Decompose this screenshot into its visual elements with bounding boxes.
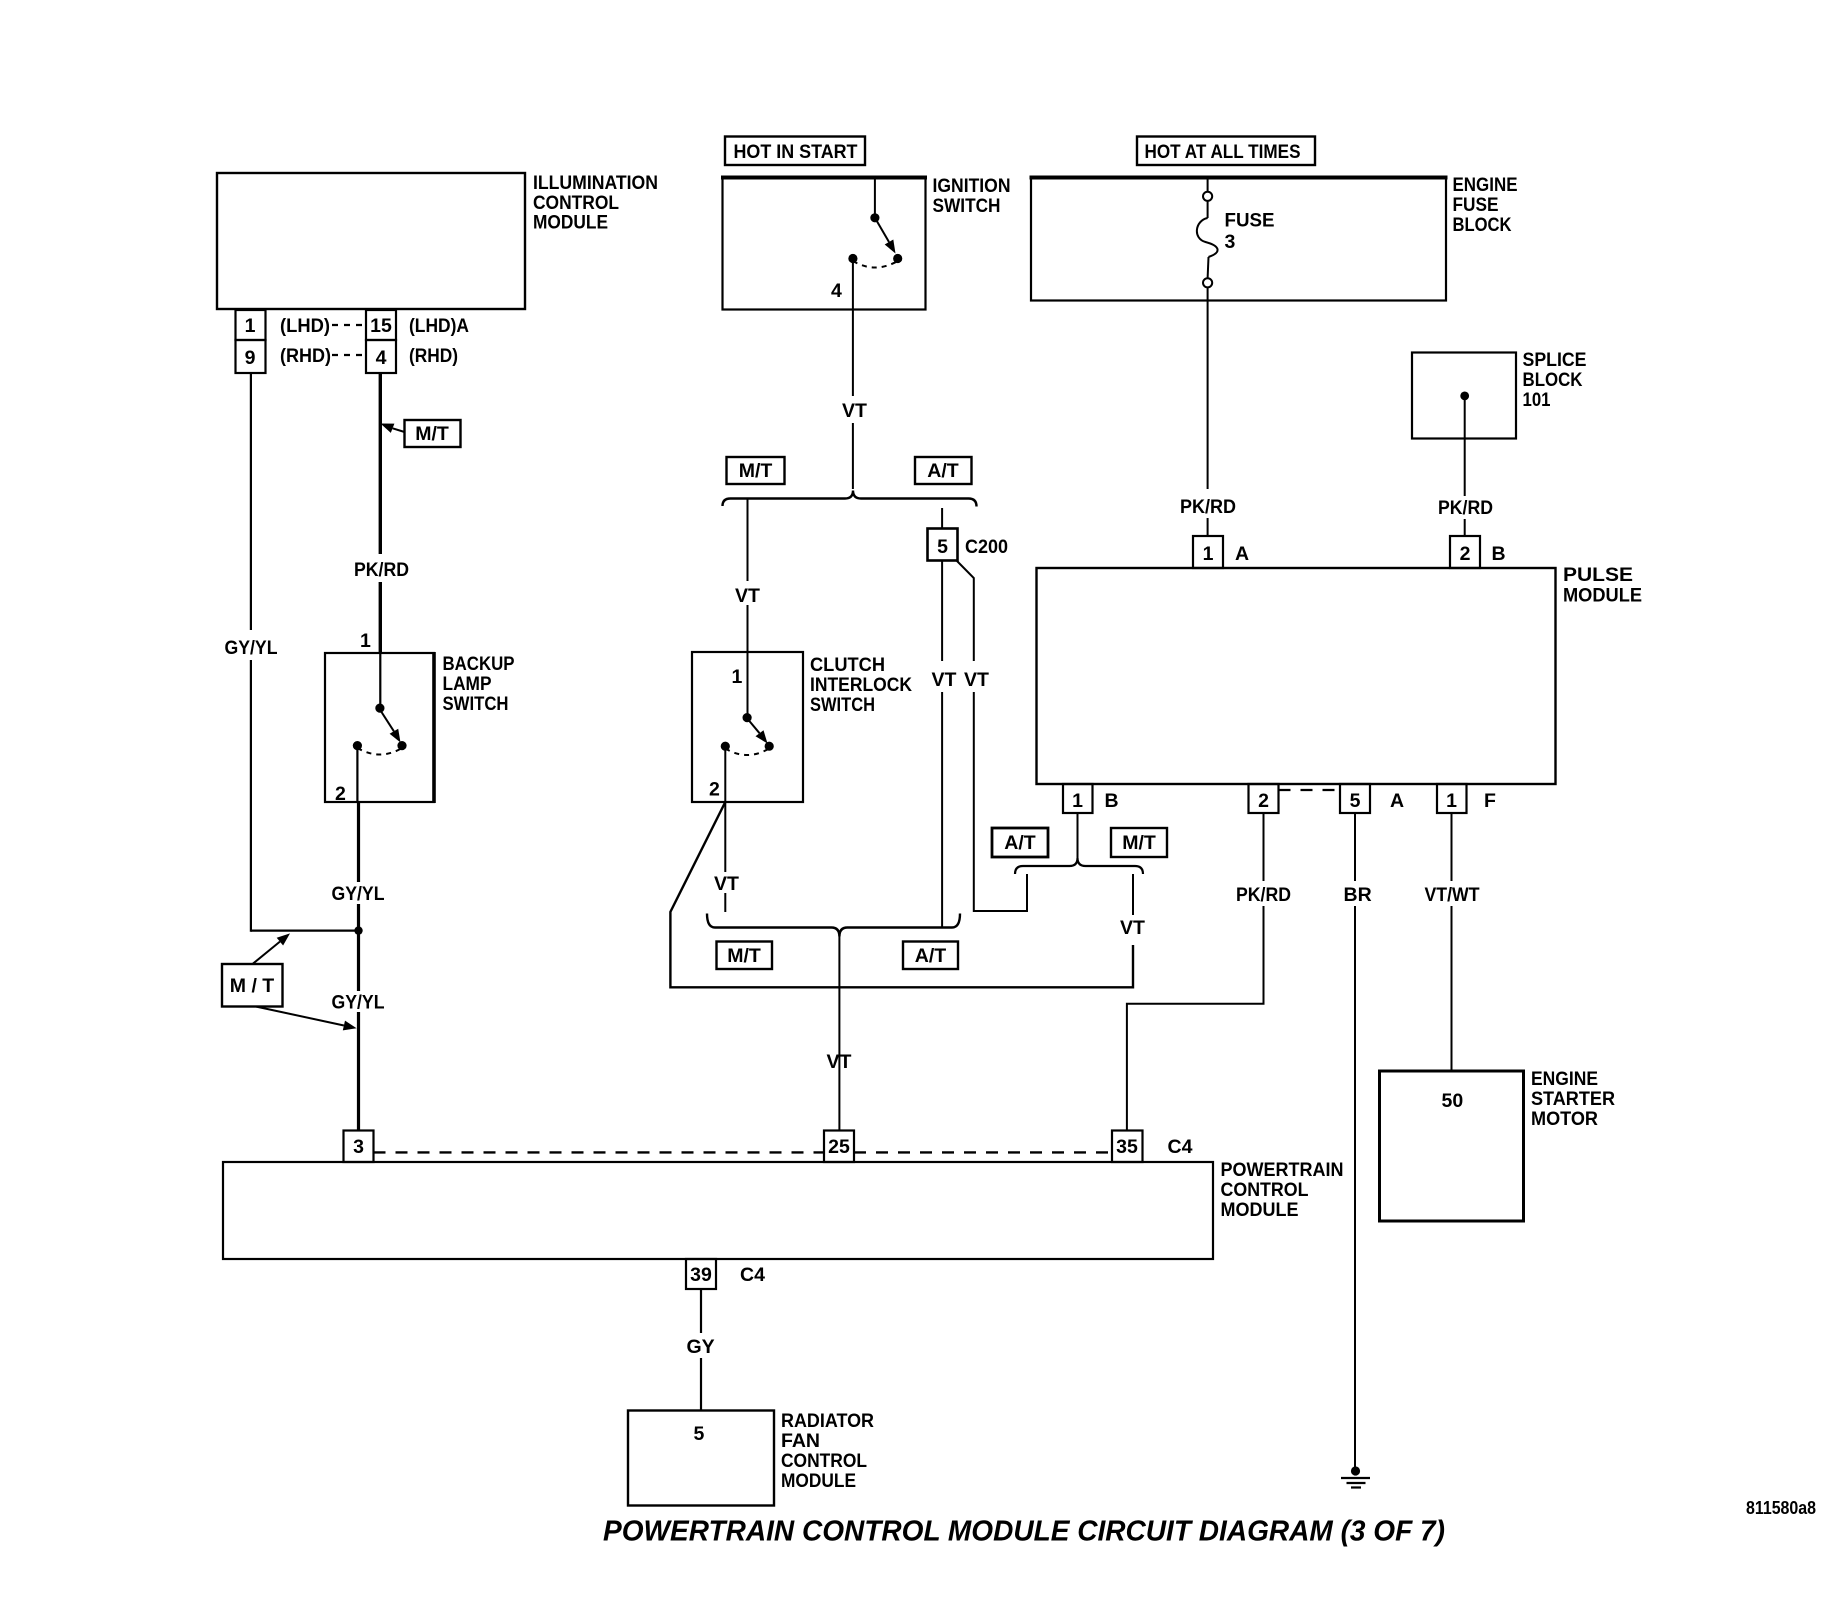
svg-text:5: 5: [1350, 790, 1361, 812]
svg-text:A/T: A/T: [915, 945, 947, 967]
wire from pin 1 B to brace: [1077, 813, 1079, 859]
svg-text:CONTROL: CONTROL: [781, 1450, 867, 1472]
svg-text:VT: VT: [964, 669, 989, 691]
svg-text:25: 25: [828, 1136, 850, 1158]
A/T label box (ignition split): [915, 457, 972, 484]
svg-text:3: 3: [353, 1136, 364, 1158]
svg-text:(LHD)A: (LHD)A: [409, 315, 469, 337]
svg-text:(LHD): (LHD): [280, 315, 330, 337]
M/T callout (pin 4 wire): [381, 420, 461, 447]
svg-text:(RHD): (RHD): [280, 345, 331, 367]
HOT AT ALL TIMES box: [1137, 137, 1315, 166]
dashed link pin3-pin25: [374, 1151, 825, 1153]
wire to C200 (A/T branch): [941, 508, 943, 529]
brace under pin 1B: [1015, 858, 1143, 874]
svg-text:A/T: A/T: [927, 460, 959, 482]
svg-text:VT: VT: [842, 400, 867, 422]
backup lamp switch contacts: [335, 653, 407, 805]
svg-text:5: 5: [694, 1423, 705, 1445]
M/T callout (junction): [222, 933, 357, 1030]
svg-text:M/T: M/T: [727, 945, 761, 967]
svg-text:1: 1: [732, 666, 743, 688]
svg-text:CONTROL: CONTROL: [1221, 1179, 1309, 1201]
wire VT from ignition pin 4: [842, 310, 867, 489]
svg-text:35: 35: [1116, 1136, 1138, 1158]
svg-text:1: 1: [360, 630, 371, 652]
svg-text:M / T: M / T: [230, 975, 274, 997]
wire GY/YL horizontal joint: [251, 929, 359, 931]
svg-text:PK/RD: PK/RD: [1438, 497, 1493, 519]
pin 15 (illumination): [366, 310, 469, 340]
svg-text:(RHD): (RHD): [409, 345, 458, 367]
svg-text:VT: VT: [932, 669, 957, 691]
brace under ignition split: [723, 491, 977, 507]
PCM pin 39: [686, 1259, 765, 1289]
svg-text:MODULE: MODULE: [533, 212, 608, 234]
svg-text:STARTER: STARTER: [1531, 1088, 1615, 1110]
svg-text:VT: VT: [735, 585, 760, 607]
engine fuse block box: [1030, 174, 1518, 301]
wire VT (C200 left leg): [932, 561, 957, 927]
svg-text:RADIATOR: RADIATOR: [781, 1410, 874, 1432]
wire GY from pin 39: [687, 1289, 715, 1410]
wire GY/YL from pin 9: [225, 373, 278, 932]
A/T label box (1B row): [992, 828, 1048, 857]
wire PK/RD from splice block: [1438, 396, 1493, 536]
svg-text:MOTOR: MOTOR: [1531, 1108, 1598, 1130]
M/T label box (merge row): [717, 942, 773, 970]
svg-text:1: 1: [1072, 790, 1083, 812]
clutch interlock switch contacts: [709, 652, 774, 802]
svg-text:B: B: [1492, 543, 1506, 565]
svg-text:ENGINE: ENGINE: [1453, 174, 1518, 196]
svg-text:2: 2: [1460, 543, 1471, 565]
svg-text:POWERTRAIN CONTROL MODULE CIRC: POWERTRAIN CONTROL MODULE CIRCUIT DIAGRA…: [603, 1516, 1445, 1548]
PCM pin 3: [344, 1131, 374, 1163]
svg-text:BR: BR: [1344, 884, 1372, 906]
svg-text:9: 9: [245, 347, 256, 369]
svg-text:A/T: A/T: [1004, 832, 1036, 854]
svg-text:FUSE: FUSE: [1453, 194, 1499, 216]
dashed link pin25-pin35: [854, 1151, 1112, 1153]
svg-text:IGNITION: IGNITION: [933, 175, 1011, 197]
M/T label box (ignition split): [727, 457, 785, 484]
pulse module pin 2 (bottom): [1249, 784, 1279, 813]
clutch interlock switch box: [692, 652, 912, 802]
svg-text:LAMP: LAMP: [443, 673, 492, 695]
svg-text:POWERTRAIN: POWERTRAIN: [1221, 1159, 1344, 1181]
PCM pin 35: [1112, 1131, 1193, 1163]
wire GY/YL below backup switch: [332, 802, 385, 1131]
svg-text:C4: C4: [740, 1264, 765, 1286]
backup lamp switch box: [325, 652, 515, 803]
pulse module pin 1 B (bottom): [1063, 784, 1119, 813]
svg-text:FAN: FAN: [781, 1430, 820, 1452]
svg-text:SWITCH: SWITCH: [933, 195, 1001, 217]
svg-text:F: F: [1484, 790, 1496, 812]
pulse module box: [1037, 564, 1643, 784]
svg-text:GY/YL: GY/YL: [225, 637, 278, 659]
svg-text:4: 4: [831, 280, 842, 302]
svg-text:HOT IN START: HOT IN START: [734, 141, 858, 163]
svg-text:C200: C200: [965, 536, 1008, 558]
svg-text:VT: VT: [827, 1051, 852, 1073]
svg-text:ILLUMINATION: ILLUMINATION: [533, 172, 658, 194]
svg-text:A: A: [1235, 543, 1249, 565]
svg-text:3: 3: [1225, 231, 1236, 253]
svg-text:HOT AT ALL TIMES: HOT AT ALL TIMES: [1145, 141, 1301, 163]
pin 4 (illumination): [366, 340, 458, 373]
svg-text:BLOCK: BLOCK: [1523, 369, 1583, 391]
wire VT below clutch switch: [714, 802, 739, 912]
wire VT/WT from pin 1 F: [1425, 813, 1480, 1071]
svg-text:INTERLOCK: INTERLOCK: [810, 674, 912, 696]
svg-text:15: 15: [370, 315, 392, 337]
svg-text:101: 101: [1523, 389, 1551, 411]
svg-text:VT/WT: VT/WT: [1425, 884, 1480, 906]
svg-text:2: 2: [335, 783, 346, 805]
wire (clutch diagonal to pcm run): [670, 802, 1133, 987]
svg-text:A: A: [1390, 790, 1404, 812]
svg-text:B: B: [1105, 790, 1119, 812]
svg-text:MODULE: MODULE: [781, 1470, 856, 1492]
svg-text:ENGINE: ENGINE: [1531, 1068, 1598, 1090]
svg-text:4: 4: [376, 347, 387, 369]
svg-text:PK/RD: PK/RD: [1236, 884, 1291, 906]
pin 9 (illumination): [236, 340, 332, 373]
svg-text:MODULE: MODULE: [1221, 1199, 1299, 1221]
svg-text:39: 39: [690, 1264, 712, 1286]
fuse 3: [1197, 178, 1275, 301]
svg-text:GY/YL: GY/YL: [332, 883, 385, 905]
wire VT label (m/t run): [1120, 874, 1145, 939]
engine starter motor box: [1380, 1068, 1616, 1221]
ground (BR wire): [1341, 1466, 1370, 1487]
svg-text:2: 2: [1258, 790, 1269, 812]
svg-text:M/T: M/T: [1122, 832, 1156, 854]
pulse module pin 2 B: [1450, 536, 1506, 568]
wire PK/RD from pin 2 to PCM pin 35: [1127, 813, 1291, 1131]
HOT IN START box: [725, 137, 865, 166]
svg-text:PULSE: PULSE: [1563, 564, 1633, 586]
svg-text:VT: VT: [714, 873, 739, 895]
svg-text:PK/RD: PK/RD: [1180, 496, 1236, 518]
wire VT to PCM pin 25: [827, 937, 852, 1132]
pin 1 (illumination): [236, 310, 331, 340]
svg-text:1: 1: [245, 315, 256, 337]
wire BR from pin 5: [1344, 813, 1372, 1467]
powertrain control module box: [223, 1159, 1344, 1259]
svg-text:GY/YL: GY/YL: [332, 992, 385, 1014]
dashed link pin2-pin5: [1279, 789, 1341, 791]
svg-text:5: 5: [937, 536, 948, 558]
junction dot: [354, 926, 362, 934]
dashed link LHD row: [332, 324, 366, 326]
illumination control module box: [217, 172, 658, 309]
wire VT (C200 right leg): [957, 561, 1028, 912]
pulse module pin 5 A (bottom): [1340, 784, 1404, 813]
svg-text:C4: C4: [1168, 1136, 1193, 1158]
radiator fan control module box: [628, 1410, 874, 1506]
PCM pin 25: [824, 1131, 854, 1163]
svg-text:PK/RD: PK/RD: [354, 559, 409, 581]
dashed link RHD row: [332, 354, 366, 356]
ignition switch contacts: [831, 178, 902, 310]
svg-text:CLUTCH: CLUTCH: [810, 654, 885, 676]
svg-text:FUSE: FUSE: [1225, 210, 1275, 232]
splice block 101 box: [1412, 349, 1587, 439]
svg-text:M/T: M/T: [415, 423, 449, 445]
svg-text:SWITCH: SWITCH: [443, 693, 509, 715]
wire VT (M/T branch to clutch switch): [735, 500, 760, 653]
svg-text:811580a8: 811580a8: [1746, 1498, 1816, 1518]
svg-text:MODULE: MODULE: [1563, 585, 1642, 607]
connector 5 C200: [928, 529, 1009, 561]
ignition switch box: [721, 175, 1011, 310]
svg-text:2: 2: [709, 779, 720, 801]
svg-text:SPLICE: SPLICE: [1523, 349, 1587, 371]
brace (clutch/C200 merge): [707, 914, 960, 937]
svg-text:SWITCH: SWITCH: [810, 694, 875, 716]
A/T label box (merge row): [903, 942, 958, 970]
svg-text:BLOCK: BLOCK: [1453, 214, 1512, 236]
M/T label box (1B row): [1111, 828, 1167, 857]
svg-text:1: 1: [1446, 790, 1457, 812]
pulse module pin 1 F (bottom): [1437, 784, 1496, 813]
svg-text:BACKUP: BACKUP: [443, 653, 515, 675]
wire PK/RD from fuse: [1180, 300, 1236, 536]
wire PK/RD from pin 4: [354, 373, 409, 653]
svg-text:1: 1: [1203, 543, 1214, 565]
pulse module pin 1 A: [1193, 536, 1249, 568]
svg-text:M/T: M/T: [739, 460, 773, 482]
svg-text:50: 50: [1442, 1090, 1464, 1112]
svg-text:GY: GY: [687, 1336, 715, 1358]
svg-text:VT: VT: [1120, 917, 1145, 939]
